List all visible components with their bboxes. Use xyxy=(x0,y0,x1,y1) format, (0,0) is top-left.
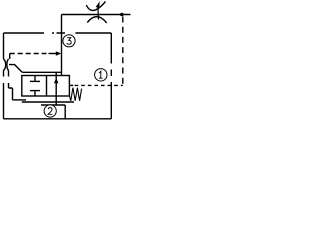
body right edge dashed middle xyxy=(110,57,112,87)
throttle adjustment arrowhead xyxy=(96,1,100,8)
wire pilot line dashed horizontal to spring side xyxy=(75,84,123,86)
wire from restrictor to valve xyxy=(9,65,22,73)
body left edge segment 2 xyxy=(3,71,5,77)
pilot arrowhead xyxy=(56,51,61,56)
body top edge left part xyxy=(4,32,45,34)
pilot drain dash below xyxy=(8,83,10,88)
restrictor left arc xyxy=(3,59,5,71)
pilot drain stub above restrictor xyxy=(9,54,11,60)
wire port 2 line L2 xyxy=(41,104,65,106)
wire vertical to bottom line xyxy=(64,105,66,119)
blocked port T bottom stem xyxy=(34,91,36,96)
pilot arrow shaft xyxy=(49,53,57,55)
wire pilot line dashed vertical right xyxy=(122,17,124,86)
body right edge lower xyxy=(110,87,112,119)
wire top flow line xyxy=(62,14,131,16)
valve box xyxy=(22,76,70,97)
digit 2 xyxy=(48,108,52,115)
blocked port T top bar xyxy=(30,80,40,82)
digit 1 xyxy=(99,71,103,78)
port circle 3 xyxy=(63,35,75,47)
body bottom edge xyxy=(4,118,112,120)
body top edge right part xyxy=(52,32,111,34)
port circle 2 xyxy=(44,105,56,117)
digit 3 xyxy=(67,38,71,45)
body left edge segment 1 xyxy=(3,33,5,59)
throttle adjustment arrow shaft xyxy=(97,7,100,20)
valve flow arrowhead up xyxy=(54,78,58,83)
port circle 1 xyxy=(95,69,107,81)
valve box divider xyxy=(46,76,48,97)
pilot drain stub below restrictor xyxy=(8,71,10,77)
node junction dot on top line xyxy=(120,13,124,17)
blocked port T top stem xyxy=(34,76,36,82)
wire drain horizontal L1 xyxy=(13,99,27,101)
spring zigzag xyxy=(70,88,82,101)
wire jog to drain line xyxy=(9,88,13,100)
body right edge xyxy=(110,33,112,57)
blocked port T bottom bar xyxy=(30,90,40,92)
wire solid stub at spring side xyxy=(70,84,74,86)
wire vertical from top line down to valve xyxy=(61,15,63,76)
restrictor right arc xyxy=(7,59,9,71)
body left edge segment 3 xyxy=(3,83,5,119)
wire line A into valve xyxy=(22,71,61,73)
throttle valve upper arc xyxy=(86,2,105,11)
throttle valve lower arc xyxy=(87,17,106,23)
pilot dashed line toward valve xyxy=(10,53,47,55)
valve flow path V2 xyxy=(55,72,57,105)
wire port line under box xyxy=(22,101,74,103)
